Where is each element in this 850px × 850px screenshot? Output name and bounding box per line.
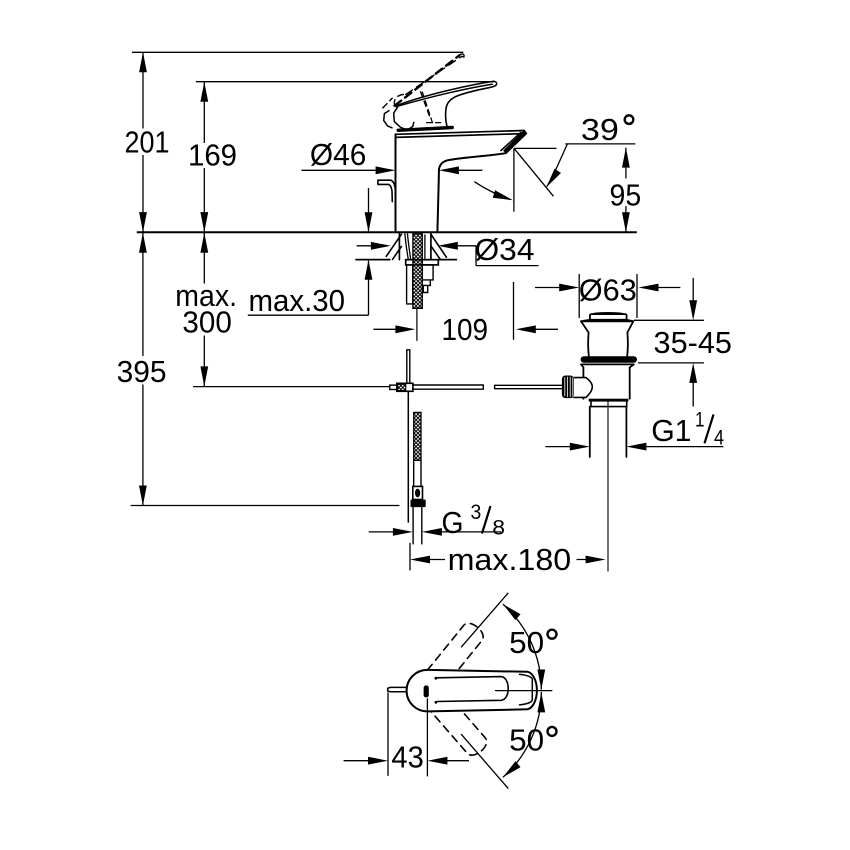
arrowheads: dim G1 1/4: [570, 443, 590, 451]
drain valve collar: [581, 364, 634, 367]
lever front small pentagon facet: [384, 111, 392, 128]
svg-text:109: 109: [442, 312, 489, 347]
lever handle underside / neck: [446, 88, 489, 129]
supply nipple steps: [422, 265, 433, 293]
svg-text:max.30: max.30: [249, 283, 346, 318]
handle top view: rotated lever +50 dashed (drawn first, occluded by capsule): [418, 620, 487, 696]
raised lever (dashed) stem toward pivot: [421, 92, 431, 120]
raised lever tip: [459, 54, 464, 57]
39-degree leader line: [565, 143, 635, 145]
drain valve O-ring (black band): [581, 356, 637, 363]
dim 201 reference line (top, to raised-lever tip): [132, 51, 463, 53]
cartridge dome dark band: [398, 128, 452, 131]
dim G3/8 tails: [369, 531, 501, 533]
dim line max.300 vertical: [203, 233, 205, 387]
drain valve neck: [588, 333, 628, 356]
39-degree slant line (stream direction): [514, 148, 553, 196]
arrowheads: dim G3/8: [393, 528, 413, 536]
drain valve flare sides: [581, 321, 633, 332]
raised lever (dashed) lower edge: [395, 55, 459, 105]
supply pipe end: [413, 507, 422, 544]
counter bottom lines: [356, 259, 456, 261]
hidden cartridge dashed lines: [422, 92, 441, 123]
lever front point: [394, 105, 398, 107]
handle top view: black logo marker: [424, 685, 429, 697]
svg-text:169: 169: [188, 138, 237, 173]
handle top view: capsule outline (white fill occludes dashed levers): [407, 670, 537, 712]
drain tailpipe nut dark band: [589, 399, 629, 402]
arrowheads: dim Ø63: [559, 284, 579, 292]
svg-text:Ø46: Ø46: [310, 137, 367, 172]
drain tailpipe: [590, 407, 627, 457]
handle top view: centerline: [496, 690, 552, 692]
drain knurled knob: [562, 376, 574, 399]
arrowheads: dim 395: [139, 233, 147, 253]
svg-text:max.180: max.180: [448, 542, 572, 577]
svg-text:201: 201: [125, 125, 170, 160]
counter section hatch marks: [386, 234, 446, 259]
arrowheads: 50-degree arcs: [500, 601, 520, 620]
drain valve body: [583, 367, 629, 398]
arrowheads: dim max.180: [410, 556, 430, 564]
svg-text:Ø34: Ø34: [475, 232, 535, 267]
pop-up rod hook on body left: [378, 180, 396, 201]
arrowheads: dim max.300: [200, 233, 208, 253]
spout aerator inner slab lines: [501, 132, 521, 150]
pop-up vertical rod upper (double line): [407, 350, 410, 384]
dim 95 vertical: [625, 148, 627, 233]
drain pipe centerline: [607, 400, 609, 571]
svg-text:50: 50: [509, 722, 544, 757]
dim Ø34 tails + leader: [357, 246, 539, 266]
T-junction connector block: [397, 383, 413, 391]
arrowheads: dim 35-45: [689, 300, 697, 320]
95 top reference line from spout outlet: [514, 147, 556, 149]
arrowheads: dim 201: [139, 52, 147, 72]
counter hole walls: [399, 234, 431, 260]
lever handle tip hook: [489, 81, 497, 87]
dim 43 ticks and tails: [344, 692, 469, 776]
floor reference line (395 bottom / supply pipe end): [131, 505, 400, 507]
spout underside curve into body right edge: [437, 153, 505, 232]
threaded shank (crosshatched): [413, 234, 422, 308]
dim 43 right tick (over capsule): [426, 699, 428, 776]
svg-text:1: 1: [695, 408, 705, 432]
faucet axis tick for 109: [416, 308, 418, 340]
svg-text:Ø63: Ø63: [579, 273, 637, 308]
T-junction left nipple: [390, 385, 397, 389]
hose connector box: [413, 486, 423, 499]
dim G1 1/4 tails: [545, 446, 723, 448]
handle top view: inner lever outline: [437, 677, 508, 702]
faucet body left edge: [395, 134, 397, 232]
faucet deck top lines: [396, 131, 525, 138]
svg-text:395: 395: [117, 354, 167, 389]
pop-up vertical rod lower: [407, 391, 409, 522]
lever handle top edge (double line): [398, 81, 494, 106]
svg-text:G: G: [442, 505, 464, 540]
arrowheads: dim 95: [622, 148, 630, 168]
dim max.180 ticks and tails: [410, 543, 587, 571]
svg-text:4: 4: [714, 425, 724, 449]
svg-text:95: 95: [610, 177, 642, 212]
pop-up rod sleeve below flange: [407, 265, 413, 304]
flexible supply hose (crosshatched): [414, 412, 421, 460]
arrowheads: dim Ø46: [376, 166, 396, 174]
max.300 bottom reference line (pop-up rod level): [193, 386, 390, 388]
dim line 395 vertical: [142, 233, 144, 506]
drain valve rim: [581, 320, 633, 322]
lever chin facet polygon: [394, 107, 414, 130]
svg-text:300: 300: [182, 304, 231, 339]
pop-up rod curving through counter hole: [405, 234, 411, 260]
arrowheads: dim max.30: [365, 212, 373, 232]
39-degree arc lower: [474, 182, 510, 200]
hose connector black oval: [415, 489, 420, 498]
svg-text:50: 50: [509, 625, 544, 660]
drain valve cap dome line: [593, 313, 625, 314]
svg-text:3: 3: [471, 500, 482, 524]
spout aerator slab (dark): [504, 131, 527, 154]
handle top view: end dots: [435, 677, 438, 680]
dim Ø63 tails: [535, 287, 680, 289]
dim 109 tails + spout-outlet tick: [373, 282, 558, 340]
handle top view: front pin: [388, 687, 407, 691]
svg-text:G1: G1: [651, 413, 691, 448]
arrowheads: dim 169: [200, 82, 208, 102]
shank bottom cap: [413, 307, 422, 309]
raised lever (dashed) chin edge: [383, 98, 392, 108]
arrowheads: dim 43: [368, 757, 388, 765]
svg-text:39: 39: [581, 112, 619, 147]
raised lever (dashed) upper edge: [406, 56, 462, 94]
dim 169 reference line (to solid-lever tip): [196, 81, 494, 83]
hose nut black band: [411, 500, 426, 508]
mounting flange nut: [406, 260, 439, 265]
svg-text:35-45: 35-45: [654, 325, 733, 360]
50-degree arc lower: [503, 692, 541, 777]
horizontal actuating rod (with break): [413, 385, 562, 389]
hose plain section: [414, 460, 421, 486]
dim 35-45 verticals + extension lines: [634, 278, 704, 407]
drain tailpipe nut: [591, 402, 627, 407]
drain valve cap: [590, 314, 627, 320]
dim line 201 vertical: [142, 52, 144, 232]
shank wall line in hole: [424, 235, 426, 259]
svg-text:43: 43: [391, 739, 423, 774]
arrowheads: dim Ø34: [371, 242, 391, 250]
raised lever (dashed) butt arc: [394, 94, 405, 105]
drain knob barrel: [574, 378, 592, 398]
39-degree arc upper: [547, 144, 568, 187]
50-degree slant extension lines (bottom view): [461, 593, 508, 789]
counter/basin reference line: [137, 231, 637, 233]
spout outlet vertical extension line: [513, 148, 515, 211]
svg-text:8: 8: [492, 516, 505, 540]
dim line 169 vertical: [203, 82, 205, 232]
arrowheads: 39-degree arcs: [543, 169, 561, 190]
handle top view: rotated lever -50 dashed: [421, 684, 490, 760]
dim Ø63 extension lines: [579, 274, 637, 318]
50-degree arc upper: [503, 604, 541, 689]
dim max.30 vertical + leader underline: [248, 188, 369, 315]
handle top view: end chamfer line: [520, 674, 533, 705]
arrowheads: dim 109: [395, 325, 415, 333]
dim Ø46 tails: [302, 169, 483, 171]
